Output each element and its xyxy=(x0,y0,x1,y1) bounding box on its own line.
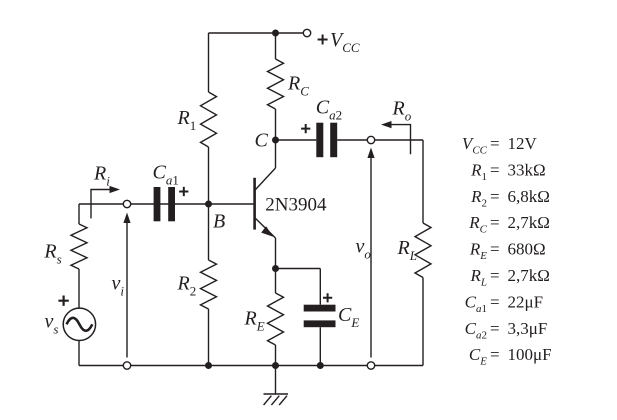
svg-text:=: = xyxy=(490,187,500,206)
svg-text:100μF: 100μF xyxy=(508,345,552,364)
svg-text:2N3904: 2N3904 xyxy=(265,195,327,216)
svg-text:22μF: 22μF xyxy=(508,292,544,311)
svg-text:12V: 12V xyxy=(508,134,538,153)
svg-text:6,8kΩ: 6,8kΩ xyxy=(508,187,550,206)
svg-text:=: = xyxy=(490,213,500,232)
svg-text:=: = xyxy=(490,160,500,179)
svg-text:=: = xyxy=(490,240,500,259)
svg-text:B: B xyxy=(213,210,225,232)
svg-text:=: = xyxy=(490,292,500,311)
svg-text:C: C xyxy=(255,129,269,151)
svg-text:=: = xyxy=(490,134,500,153)
svg-text:3,3μF: 3,3μF xyxy=(508,319,548,338)
svg-text:=: = xyxy=(490,319,500,338)
svg-text:33kΩ: 33kΩ xyxy=(508,160,546,179)
svg-text:=: = xyxy=(490,266,500,285)
svg-text:=: = xyxy=(490,345,500,364)
svg-text:680Ω: 680Ω xyxy=(508,240,546,259)
svg-text:2,7kΩ: 2,7kΩ xyxy=(508,213,550,232)
svg-text:2,7kΩ: 2,7kΩ xyxy=(508,266,550,285)
